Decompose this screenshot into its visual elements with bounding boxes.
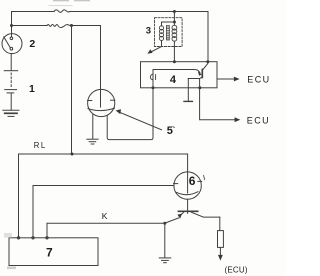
connector mark igniter: [150, 74, 155, 80]
resistor R1: [218, 231, 224, 248]
wire coil to igniter: [173, 41, 175, 62]
svg-text:K: K: [102, 211, 108, 221]
arrowhead base (into bar): [198, 71, 202, 76]
svg-text:4: 4: [170, 74, 177, 86]
battery 1: [4, 71, 18, 110]
node switch feed junction: [10, 24, 13, 27]
ground igniter: [184, 100, 192, 102]
wire right supply drop: [207, 12, 209, 62]
distributor 5: [88, 89, 115, 116]
transistor Q1 base bar: [201, 70, 203, 78]
node igniter bottom left: [152, 86, 155, 89]
node igniter bottom right: [198, 86, 201, 89]
transistor Q2 base bar: [178, 210, 197, 212]
ground distributor: [87, 139, 98, 144]
wire RL to tachometer: [187, 154, 189, 172]
arrowhead high tension: [147, 49, 152, 53]
scan smudge left edge 3: [4, 233, 12, 238]
wire drop to distributor: [100, 26, 102, 90]
ignition coil 3 dashed box: [155, 18, 183, 47]
node K junction: [163, 222, 166, 225]
coil core: [166, 26, 169, 41]
node igniter top right: [206, 60, 209, 63]
coil top bar: [162, 22, 175, 26]
svg-text:3: 3: [146, 26, 151, 37]
node coil feed junction: [173, 10, 176, 13]
wire K down to box 7: [46, 223, 48, 238]
fuse F2: [47, 24, 70, 27]
wire igniter input: [152, 70, 154, 88]
arrowhead ECU lower: [235, 117, 241, 122]
svg-text:6: 6: [189, 174, 196, 188]
transistor Q1 collector: [203, 62, 208, 70]
wire igniter output to ECU: [217, 78, 235, 80]
wire tachometer to transistor: [187, 199, 189, 213]
wire K junction to ground: [164, 223, 166, 257]
node coil top junction: [173, 21, 176, 24]
terminal node box7 c: [46, 237, 48, 239]
wire distributor left leg: [92, 115, 94, 139]
transistor Q2 collector: [192, 212, 220, 217]
arrowhead Q2 emitter (into bar): [177, 214, 182, 219]
wire switch top vertical: [11, 12, 13, 37]
svg-text:5: 5: [167, 125, 173, 137]
node RL junction: [71, 153, 74, 156]
wire collector to resistor: [219, 217, 221, 231]
node fuse junction: [70, 24, 73, 27]
wire second supply line: [12, 25, 101, 27]
svg-text:1: 1: [29, 83, 35, 95]
wire emitter to ground: [187, 79, 189, 102]
svg-text:RL: RL: [34, 141, 47, 150]
transistor Q1 emitter: [188, 77, 202, 79]
arrowhead down to ECU: [218, 255, 223, 261]
node igniter top left: [173, 60, 176, 63]
wire RL down to box 7: [18, 154, 20, 238]
ECU box 7: [9, 238, 98, 266]
svg-text:2: 2: [29, 38, 35, 50]
wire RL line: [19, 153, 188, 155]
ignition switch 2: [2, 34, 22, 54]
wire K line: [47, 222, 165, 224]
tick mark right of tachometer: [204, 175, 205, 179]
arrowhead ECU upper: [234, 77, 240, 82]
svg-text:7: 7: [46, 246, 53, 260]
wire coil feed: [173, 12, 175, 26]
wire middle drop to RL line: [71, 26, 73, 155]
tachometer 6: [174, 172, 202, 199]
coil secondary winding: [172, 25, 177, 41]
igniter box 4: [141, 62, 218, 88]
arrowhead label 5: [116, 109, 121, 114]
svg-text:ECU: ECU: [247, 75, 270, 85]
ground K: [159, 258, 171, 263]
fusible link F1: [54, 10, 70, 12]
terminal node box7 b: [32, 237, 34, 239]
wire base lead: [153, 70, 200, 73]
wire emitter sense to ECU: [200, 79, 236, 120]
svg-text:ECU: ECU: [247, 115, 270, 125]
wire switch to battery: [10, 54, 12, 71]
scan artifact top edge a: [53, 0, 69, 1]
coil primary winding: [159, 26, 163, 41]
tick mark after label 5: [173, 126, 174, 129]
scan smudge bottom left: [7, 267, 16, 270]
scan artifact top edge b: [74, 0, 90, 1]
transistor Q2 emitter wire: [165, 212, 184, 223]
wire secondary to high tension arrow: [150, 41, 162, 53]
wire igniter to coil primary loop: [107, 88, 153, 140]
wire second line to tachometer: [33, 185, 174, 187]
svg-text:(ECU): (ECU): [225, 266, 248, 275]
scan artifact faint line: [49, 4, 73, 7]
label 5 pointer line: [118, 112, 162, 130]
wire second line down to box 7: [32, 186, 34, 238]
terminal node box7 a: [17, 237, 19, 239]
wire top supply line: [12, 11, 209, 13]
wire resistor to ECU: [219, 247, 221, 256]
ground battery: [3, 110, 19, 116]
